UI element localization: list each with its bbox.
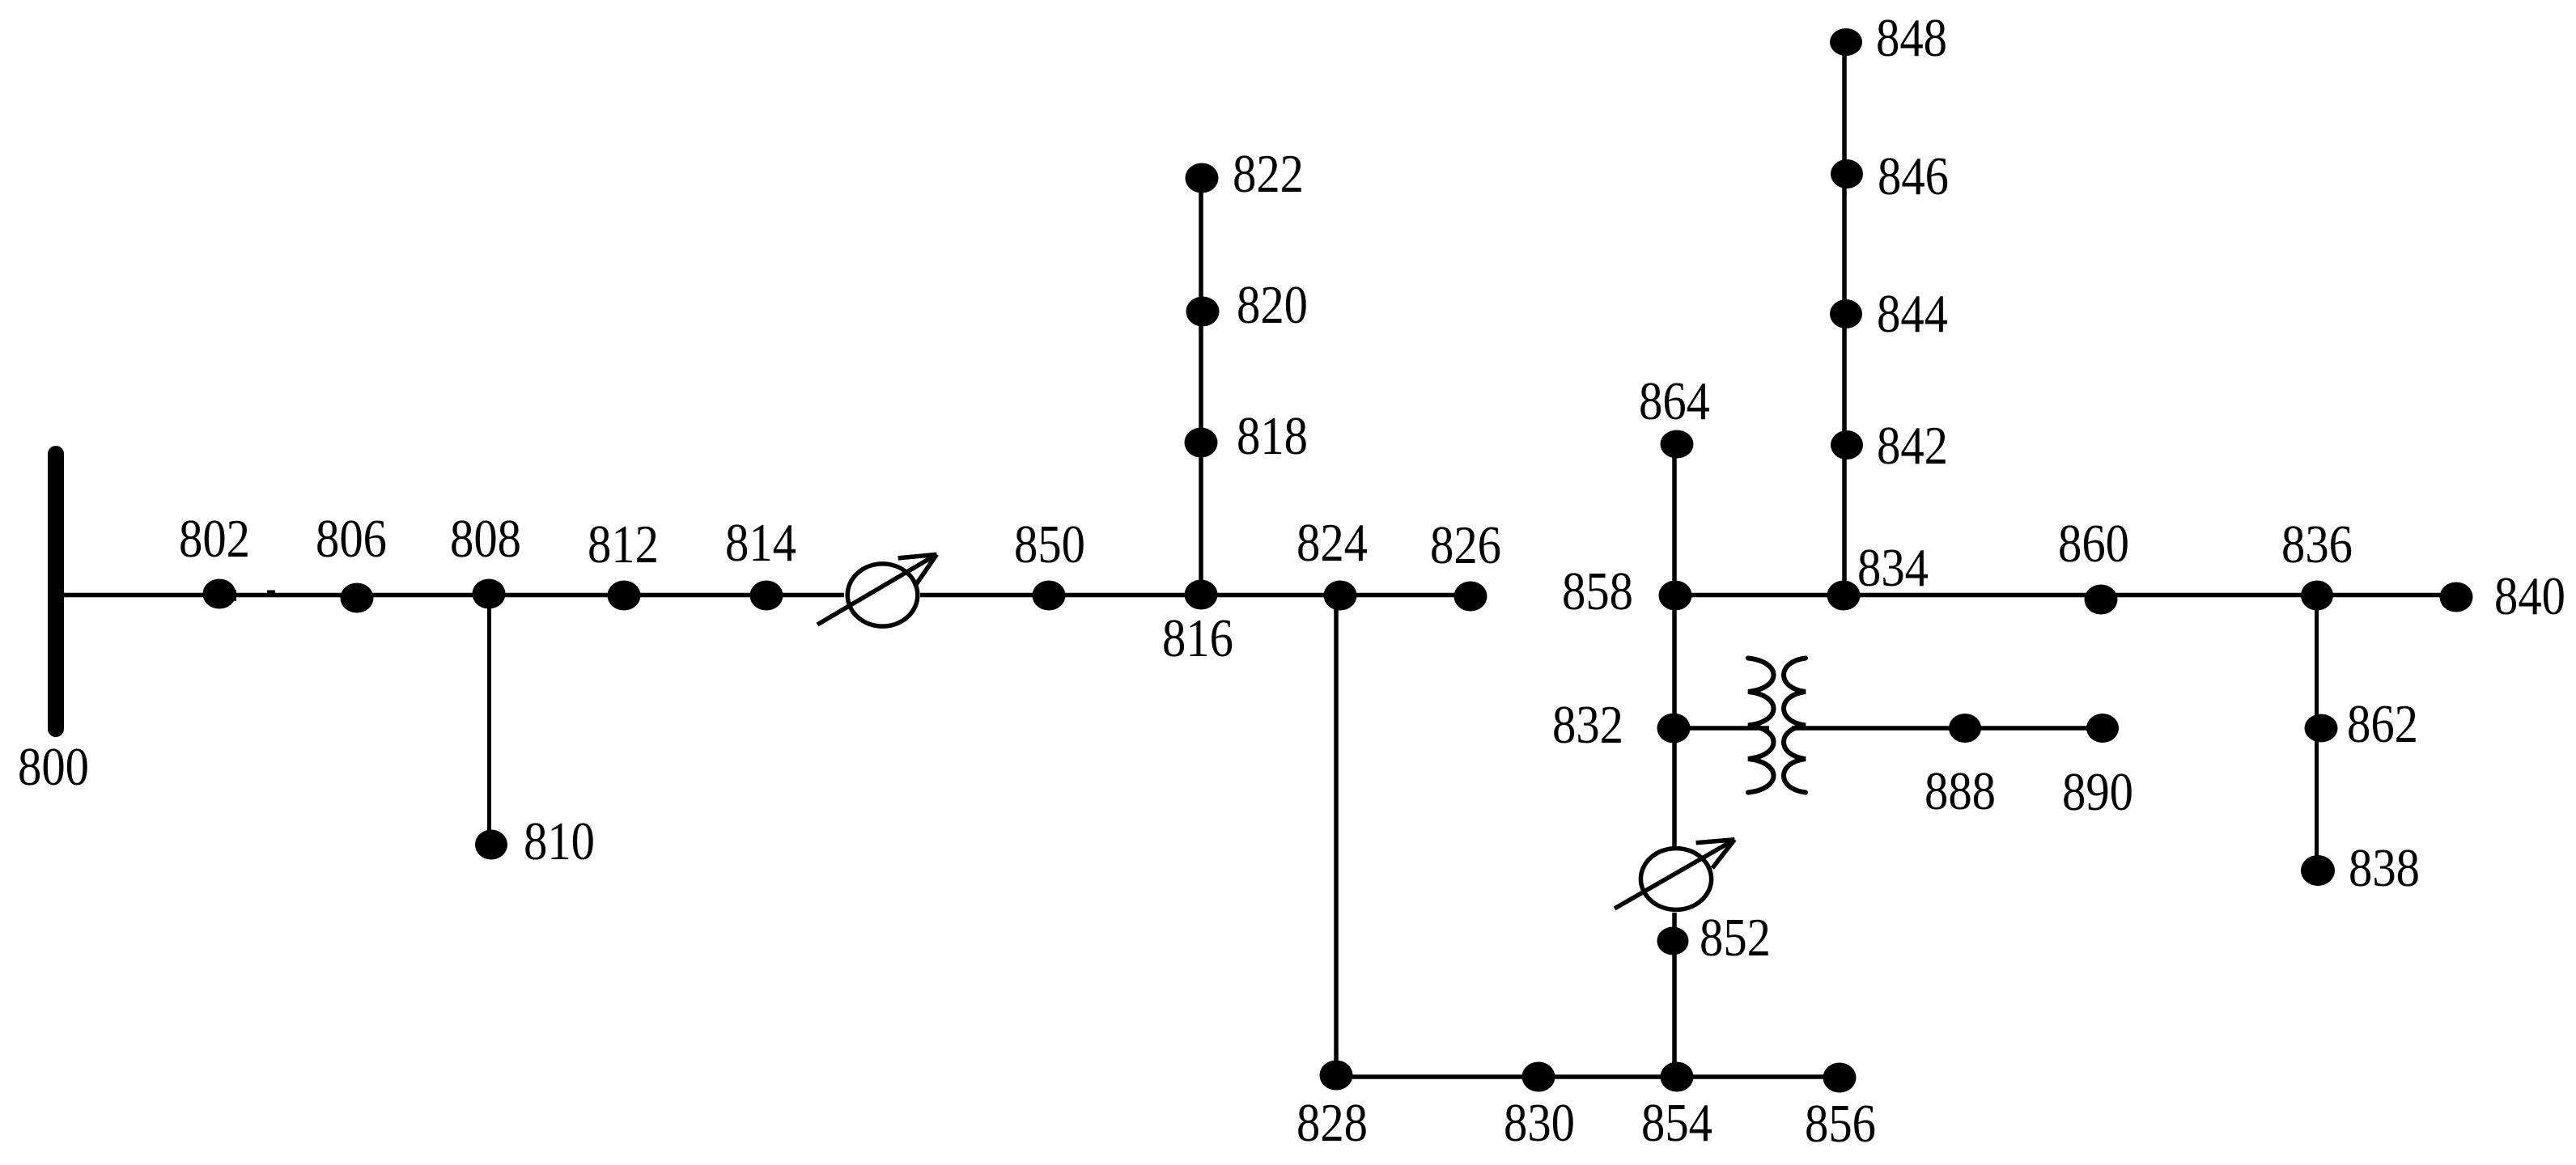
node 858 bbox=[1659, 581, 1692, 611]
transformer XFM-1 right winding bbox=[1784, 659, 1806, 793]
node 810 bbox=[475, 830, 507, 860]
node 816 bbox=[1185, 580, 1218, 610]
svg-text:824: 824 bbox=[1296, 513, 1368, 573]
voltage regulator VR1 (circle) bbox=[847, 564, 918, 626]
node 812 bbox=[608, 581, 641, 611]
voltage regulator VR2 (circle) bbox=[1640, 849, 1711, 910]
node 814 bbox=[750, 581, 783, 611]
svg-text:858: 858 bbox=[1562, 561, 1633, 621]
wire transformer to 890 bbox=[1792, 726, 2103, 731]
wire branch 834-848 bbox=[1842, 42, 1847, 595]
svg-text:816: 816 bbox=[1162, 608, 1233, 668]
bus 800 bar bbox=[48, 454, 64, 729]
svg-text:830: 830 bbox=[1504, 1093, 1575, 1153]
wire main left 800-814 to regulator1 bbox=[58, 593, 844, 598]
wire main mid regulator1-826 bbox=[920, 593, 1470, 598]
wire branch 824-828 bbox=[1334, 595, 1339, 1076]
node 820 bbox=[1186, 297, 1220, 327]
node 832 bbox=[1657, 714, 1691, 743]
svg-text:812: 812 bbox=[588, 515, 659, 574]
svg-text:842: 842 bbox=[1877, 416, 1948, 476]
svg-text:836: 836 bbox=[2281, 515, 2353, 574]
wire branch 808-810 bbox=[487, 595, 491, 845]
node 840 bbox=[2440, 582, 2473, 612]
wire branch 816-822 bbox=[1199, 178, 1203, 595]
svg-text:864: 864 bbox=[1639, 371, 1710, 431]
wire branch 836-838 bbox=[2315, 595, 2319, 871]
svg-text:806: 806 bbox=[316, 509, 387, 569]
svg-text:852: 852 bbox=[1700, 908, 1771, 968]
artifact tick near 802 bbox=[235, 590, 237, 601]
wire 832 to transformer bbox=[1674, 726, 1769, 731]
node 846 bbox=[1831, 159, 1863, 189]
svg-text:800: 800 bbox=[18, 737, 89, 797]
node 802 bbox=[203, 579, 236, 609]
voltage regulator VR1 arrow bbox=[817, 554, 937, 625]
node 806 bbox=[341, 583, 374, 613]
node 808 bbox=[473, 579, 506, 609]
wire main right 858-840 bbox=[1674, 593, 2456, 598]
node 834 bbox=[1827, 581, 1861, 611]
node 836 bbox=[2301, 581, 2333, 611]
node 890 bbox=[2086, 714, 2119, 743]
svg-text:834: 834 bbox=[1857, 538, 1929, 598]
node 864 bbox=[1661, 430, 1694, 459]
node 842 bbox=[1831, 430, 1863, 460]
svg-text:888: 888 bbox=[1925, 761, 1996, 821]
wire regulator2 up through 832,858 to 864 bbox=[1672, 444, 1677, 846]
svg-text:822: 822 bbox=[1233, 144, 1304, 204]
svg-text:810: 810 bbox=[524, 811, 595, 871]
svg-text:840: 840 bbox=[2494, 566, 2565, 626]
svg-text:850: 850 bbox=[1014, 515, 1085, 574]
svg-text:862: 862 bbox=[2347, 694, 2418, 754]
svg-text:854: 854 bbox=[1641, 1093, 1712, 1153]
transformer XFM-1 left winding bbox=[1748, 659, 1774, 793]
svg-text:808: 808 bbox=[450, 509, 521, 569]
svg-text:890: 890 bbox=[2062, 762, 2133, 822]
node 848 bbox=[1830, 28, 1862, 56]
node 828 bbox=[1320, 1061, 1353, 1091]
node 850 bbox=[1033, 581, 1066, 611]
voltage regulator VR2 arrow bbox=[1615, 840, 1734, 909]
node 838 bbox=[2301, 855, 2335, 886]
svg-text:856: 856 bbox=[1805, 1094, 1876, 1154]
wire bottom 828-856 bbox=[1336, 1074, 1840, 1079]
svg-text:844: 844 bbox=[1877, 284, 1948, 344]
node 852 bbox=[1657, 927, 1689, 955]
svg-text:820: 820 bbox=[1237, 275, 1308, 335]
svg-text:838: 838 bbox=[2349, 838, 2420, 898]
node 818 bbox=[1185, 428, 1218, 458]
node 856 bbox=[1823, 1063, 1857, 1093]
artifact dash on line 802-806 bbox=[267, 591, 275, 594]
svg-text:846: 846 bbox=[1878, 146, 1949, 206]
node 824 bbox=[1324, 581, 1357, 611]
svg-text:814: 814 bbox=[725, 513, 796, 573]
wire 854 up to regulator2 bbox=[1672, 913, 1677, 1077]
svg-text:826: 826 bbox=[1430, 515, 1501, 575]
node 888 bbox=[1949, 714, 1981, 743]
svg-text:828: 828 bbox=[1296, 1093, 1368, 1153]
svg-text:848: 848 bbox=[1876, 8, 1947, 68]
node 862 bbox=[2305, 714, 2338, 743]
node 830 bbox=[1522, 1062, 1555, 1092]
node 860 bbox=[2085, 585, 2118, 615]
svg-text:832: 832 bbox=[1552, 695, 1623, 755]
node 844 bbox=[1830, 299, 1862, 328]
svg-text:802: 802 bbox=[179, 509, 250, 569]
node 822 bbox=[1186, 163, 1219, 193]
svg-text:860: 860 bbox=[2058, 514, 2129, 574]
node 854 bbox=[1661, 1062, 1694, 1092]
node 826 bbox=[1454, 582, 1487, 612]
svg-text:818: 818 bbox=[1237, 406, 1308, 466]
